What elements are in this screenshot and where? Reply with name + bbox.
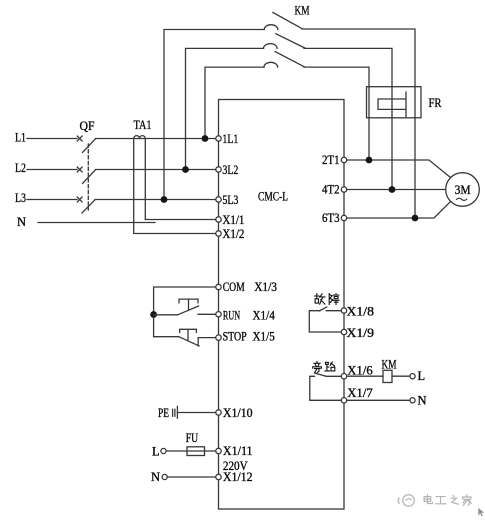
node junction on 4T2 wire [389,186,396,193]
terminal STOP X1/5 [216,335,221,340]
svg-text:COM: COM [223,280,245,294]
wire L2 to terminal 3L2 [96,169,216,171]
wire KM contact 2 to 4T2 branch [304,48,392,189]
wire L3 to terminal 5L3 [95,199,216,201]
terminal RUN X1/4 [216,312,221,317]
wire N supply to X1/12 [167,476,215,478]
current transformer TA1 bump 1 [134,136,140,139]
svg-text:N: N [151,470,160,484]
svg-text:X1/6: X1/6 [347,364,372,378]
terminal X1/2 [216,231,221,236]
wire COM to pushbuttons [154,287,216,337]
watermark logo circle [398,495,414,507]
watermark char JIA [463,495,472,505]
node junction on L2 wire [182,166,189,173]
wire PE to X1/10 [177,412,215,414]
breaker QF pole 1 contact cross [77,136,82,141]
wire STOP branch left [154,336,179,338]
breaker QF linkage dashed [87,144,89,210]
wire RUN branch right [198,313,216,315]
bypass relay contact right stub [326,375,341,377]
soft starter box CMC-L [219,100,345,510]
svg-text:FU: FU [186,431,198,445]
svg-text:PE: PE [158,406,169,420]
terminal X1/11 [216,448,221,453]
svg-text:X1/8: X1/8 [347,305,375,319]
terminal 2T1 [341,157,346,162]
svg-text:N: N [418,394,427,408]
terminal X1/10 [216,410,221,415]
terminal 6T3 [341,215,346,220]
svg-text:X1/11: X1/11 [223,444,253,458]
svg-text:X1/3: X1/3 [254,280,277,294]
svg-text:STOP: STOP [223,330,247,344]
contactor KM contact 2 arc [264,44,278,49]
svg-text:X1/9: X1/9 [347,326,375,340]
svg-text:X1/2: X1/2 [222,227,244,241]
svg-text:RUN: RUN [223,308,240,322]
pushbutton SB-stop actuator [180,329,197,341]
breaker QF pole 2 contact cross [77,167,82,172]
terminal 3L2 [216,167,221,172]
svg-text:1L1: 1L1 [222,132,238,146]
svg-text:X1/4: X1/4 [253,308,276,322]
wire STOP branch right [198,337,215,339]
svg-text:QF: QF [80,119,95,133]
wire L1 input [27,138,77,140]
wire fault bracket X1/8 to X1/9 [309,311,341,332]
svg-text:KM: KM [382,358,397,372]
motor tilde symbol [456,198,467,200]
wire RUN branch left [154,314,178,316]
terminal N supply circle [162,474,167,479]
wire L3 input [27,199,77,201]
contactor KM contact 3 blade [275,52,304,67]
watermark char ZHI [451,495,458,504]
fault relay contact right stub [326,310,341,312]
svg-text:FR: FR [429,96,443,110]
contactor coil KM [383,370,392,382]
wire 2T1 output to motor [347,160,451,177]
node junction on L3 wire [161,196,168,203]
svg-text:L1: L1 [15,131,26,145]
terminal X1/8 [341,308,346,313]
label GU char of fault [315,294,325,305]
label LU char of bypass [325,362,335,371]
label PANG char of bypass [313,362,322,373]
terminal X1/7 [341,398,346,403]
svg-text:4T2: 4T2 [322,183,340,197]
wire riser L2 to KM contact 2 [186,48,264,169]
thermal relay FR box [367,87,422,118]
contactor KM contact 1 blade [273,13,302,29]
svg-text:CMC-L: CMC-L [258,190,288,204]
svg-text:KM: KM [295,4,310,18]
motor 3M circle [446,173,480,207]
breaker QF pole 3 contact cross [77,197,82,202]
terminal 1L1 [216,136,221,141]
wire KM contact 3 to 2T1 branch [304,67,369,160]
svg-text:L2: L2 [15,161,26,175]
pushbutton SB-run actuator [179,299,198,310]
wire TA1 secondary to X1/1 [145,139,216,220]
svg-text:2T1: 2T1 [322,153,340,167]
contactor KM contact 1 arc [264,25,278,30]
watermark char GONG [436,497,446,504]
wire 4T2 output to motor [347,189,446,191]
terminal X1/12 [216,474,221,479]
terminal X1/6 [341,374,346,379]
breaker QF pole 1 blade [83,139,96,153]
terminal N coil circle [410,398,415,403]
wire L1 to terminal 1L1 [96,138,216,140]
wire bypass bracket X1/6 to X1/7 [310,376,342,400]
wire TA1 secondary to X1/2 [134,139,216,234]
terminal L coil circle [410,374,415,379]
svg-text:L3: L3 [15,191,26,205]
svg-text:L: L [152,445,160,459]
wire KM coil to L terminal [392,375,410,377]
pushbutton SB-run blade [178,306,199,315]
terminal X1/1 [216,217,221,222]
svg-text:X1/7: X1/7 [347,386,372,400]
wire N input [38,222,155,224]
wire X1/6 to KM coil [347,375,383,377]
fault relay contact blade [320,307,327,311]
contactor KM contact 2 blade [276,34,305,49]
contactor KM contact 3 arc [264,62,278,67]
svg-text:L: L [418,369,426,383]
label ZHANG char of fault [329,294,339,305]
node junction on control branch [150,311,157,318]
svg-text:X1/10: X1/10 [223,406,253,420]
fuse FU body [187,447,205,456]
cursor arrow mark [478,508,484,516]
node junction on 6T3 wire [412,215,419,222]
svg-text:6T3: 6T3 [322,211,340,225]
wire riser L3 to KM contact 1 [164,30,264,200]
svg-text:5L3: 5L3 [222,193,238,207]
breaker QF pole 3 blade [82,200,95,213]
wire X1/7 to N terminal [347,399,410,401]
terminal X1/9 [341,329,346,334]
bypass relay contact blade [315,373,327,376]
ground PE symbol [173,406,178,418]
wire KM contact 1 to 6T3 branch [302,29,415,218]
breaker QF pole 2 blade [83,170,96,184]
svg-text:3L2: 3L2 [222,163,238,177]
svg-text:3M: 3M [455,183,471,197]
wire L2 input [27,169,77,171]
node junction on L1 wire [202,135,209,142]
pushbutton SB-stop blade [179,337,199,346]
pushbutton SB-stop seat [197,338,199,346]
svg-text:X1/5: X1/5 [253,330,275,344]
svg-text:X1/12: X1/12 [223,470,253,484]
svg-text:X1/1: X1/1 [222,213,244,227]
wire 6T3 output to motor [347,202,451,218]
terminal 4T2 [341,187,346,192]
wire riser L1 to KM contact 3 [205,67,264,138]
terminal COM X1/3 [216,284,221,289]
current transformer TA1 bump 2 [140,136,146,139]
terminal 5L3 [216,197,221,202]
svg-text:TA1: TA1 [134,118,152,132]
node junction on 2T1 wire [366,157,373,164]
watermark char DIAN [424,495,432,504]
thermal relay FR heater symbol [378,92,406,117]
terminal L supply circle [161,448,166,453]
wire L supply through fuse [166,450,216,452]
svg-text:N: N [17,215,26,229]
